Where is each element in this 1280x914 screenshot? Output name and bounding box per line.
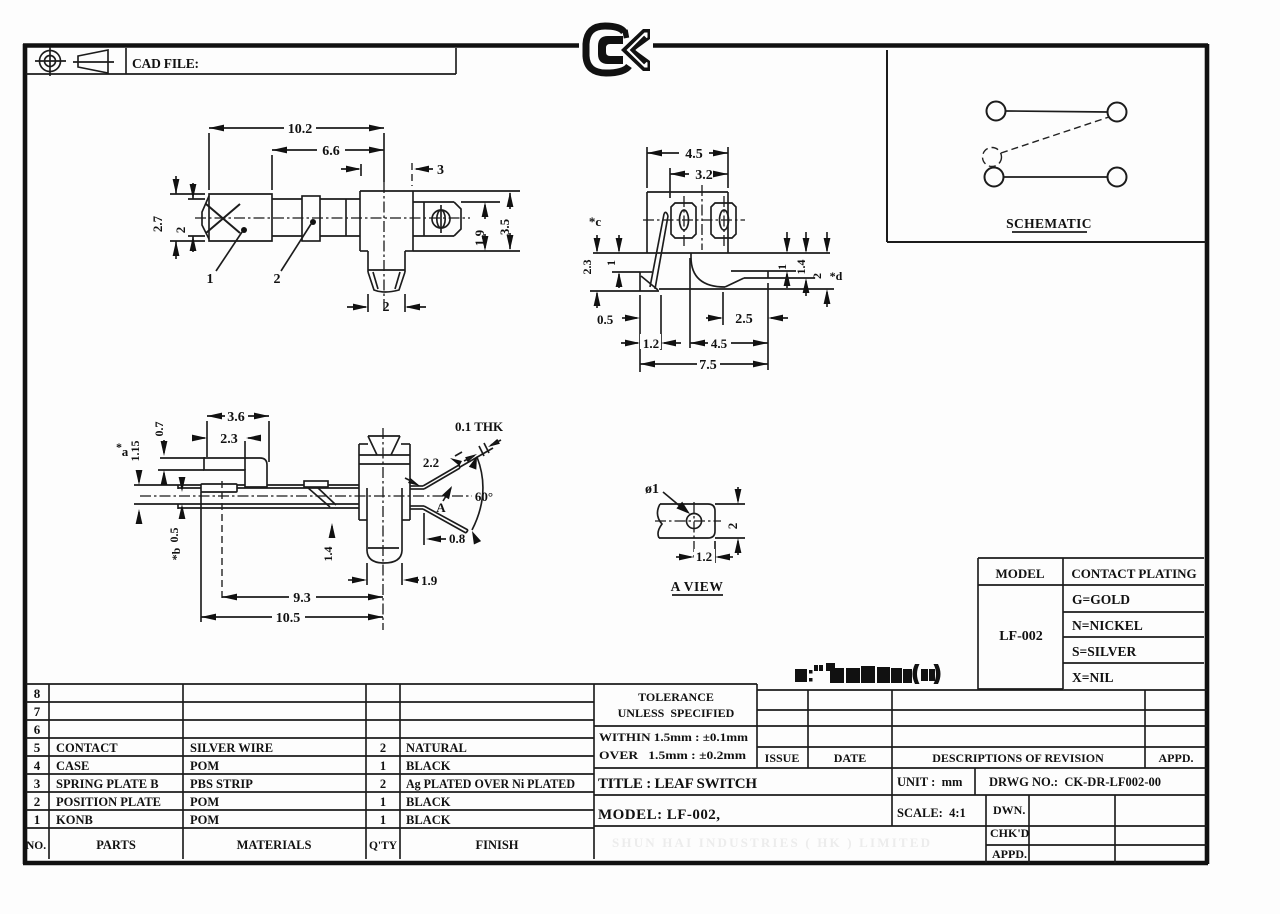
knob body (part 1): [209, 194, 272, 241]
lower fixed leaf: [410, 505, 424, 507]
svg-text:DATE: DATE: [834, 751, 866, 765]
svg-text:4.5: 4.5: [685, 147, 703, 162]
schematic terminal 2 (top-right): [1108, 103, 1127, 122]
svg-text:1: 1: [207, 272, 214, 287]
svg-text:ISSUE: ISSUE: [765, 751, 800, 765]
dim 10.2: [208, 133, 210, 190]
right terminal tab: [413, 201, 454, 203]
svg-text:2: 2: [274, 272, 281, 287]
body: [647, 191, 728, 193]
dim 2.5: [722, 292, 724, 325]
svg-text:Ag PLATED OVER Ni PLATED: Ag PLATED OVER Ni PLATED: [406, 777, 575, 791]
svg-text:WITHIN 1.5mm : ±0.1mm: WITHIN 1.5mm : ±0.1mm: [599, 732, 748, 744]
svg-text:DWN.: DWN.: [993, 803, 1025, 817]
svg-text:CONTACT PLATING: CONTACT PLATING: [1071, 566, 1196, 581]
centerline: [195, 217, 470, 219]
svg-text:ø1: ø1: [645, 482, 659, 497]
svg-text:NO.: NO.: [26, 840, 46, 852]
svg-text:CHK'D: CHK'D: [990, 826, 1030, 840]
svg-text:SCHEMATIC: SCHEMATIC: [1006, 216, 1092, 231]
svg-text:9.3: 9.3: [293, 591, 311, 606]
dim 7.5: [640, 363, 697, 365]
right slotted tab: [711, 203, 736, 238]
right strip: [731, 270, 768, 272]
svg-text:1: 1: [380, 813, 386, 827]
svg-text:2: 2: [380, 777, 386, 791]
svg-text:PARTS: PARTS: [96, 838, 136, 852]
svg-text:1.15: 1.15: [128, 441, 142, 462]
svg-text:*b: *b: [169, 547, 183, 560]
svg-text:2: 2: [173, 227, 188, 234]
dashed actuator line: [1001, 117, 1109, 153]
svg-text:TOLERANCE: TOLERANCE: [638, 690, 714, 704]
svg-text:5: 5: [34, 740, 41, 755]
tolerance box: [594, 683, 757, 685]
svg-text:1.4: 1.4: [794, 260, 808, 275]
svg-text:2: 2: [810, 273, 824, 279]
leader dot part 1: [241, 227, 247, 233]
svg-text:1.2: 1.2: [643, 336, 659, 351]
svg-text:KONB: KONB: [56, 813, 93, 827]
svg-text:1: 1: [604, 260, 618, 266]
bottom plunger: [367, 251, 369, 272]
case block: [360, 190, 413, 192]
C&K company logo: [586, 26, 650, 73]
case centerline: [383, 182, 385, 310]
svg-text:2.5: 2.5: [735, 312, 753, 327]
svg-text:APPD.: APPD.: [992, 847, 1027, 861]
schematic terminal 3 (bottom-left): [985, 168, 1004, 187]
svg-text:*d: *d: [830, 269, 843, 283]
parts list table: [26, 683, 594, 685]
tab outline: [659, 504, 715, 538]
title block: [594, 794, 1207, 796]
svg-text:OVER 1.5mm : ±0.2mm: OVER 1.5mm : ±0.2mm: [599, 750, 746, 762]
terminal bracket (top-left): [204, 458, 267, 487]
svg-text:0.5: 0.5: [167, 528, 181, 543]
svg-text:SCALE: 4:1: SCALE: 4:1: [897, 806, 966, 820]
svg-text:4.5: 4.5: [711, 336, 728, 351]
first-angle projection symbol: circle target: [40, 51, 61, 72]
svg-text:60°: 60°: [475, 489, 493, 504]
hole: [687, 514, 702, 529]
svg-text:DESCRIPTIONS OF REVISION: DESCRIPTIONS OF REVISION: [932, 751, 1104, 765]
svg-text:1.9: 1.9: [421, 573, 438, 588]
svg-text:2: 2: [380, 741, 386, 755]
svg-text:2: 2: [34, 794, 41, 809]
plate lines: [158, 469, 204, 471]
dim 4.5 bottom: [689, 258, 691, 348]
svg-text:6.6: 6.6: [322, 144, 340, 159]
dim 3.5 (right outer): [413, 190, 520, 192]
dim 0.8: [423, 513, 425, 545]
curved arm: [691, 253, 725, 287]
dim 3.6: [206, 421, 208, 457]
dim 1.4: [368, 547, 399, 549]
svg-text:MODEL: MODEL: [995, 566, 1044, 581]
svg-text:POM: POM: [190, 813, 219, 827]
svg-text:DRWG NO.: CK-DR-LF002-00: DRWG NO.: CK-DR-LF002-00: [989, 775, 1161, 789]
svg-text:7.5: 7.5: [699, 358, 717, 373]
model / contact plating table: [978, 557, 1204, 559]
60 degree arc: [472, 457, 483, 530]
svg-text:TITLE : LEAF SWITCH: TITLE : LEAF SWITCH: [598, 776, 757, 792]
svg-text:NATURAL: NATURAL: [406, 741, 467, 755]
svg-text:0.8: 0.8: [449, 531, 466, 546]
dim 2.7 (left outer): [170, 193, 205, 195]
svg-text:Q'TY: Q'TY: [369, 840, 398, 852]
svg-text:BLACK: BLACK: [406, 813, 451, 827]
dim 0.5 / *b: [181, 480, 183, 489]
dim 2.3 left: [596, 235, 598, 251]
svg-text:2: 2: [383, 300, 390, 315]
wire bottom: [1004, 176, 1107, 178]
svg-text:10.5: 10.5: [276, 611, 301, 626]
svg-text:2.2: 2.2: [423, 455, 439, 470]
svg-text:BLACK: BLACK: [406, 759, 451, 773]
svg-text:3.5: 3.5: [497, 218, 512, 235]
dim 2 (left inner): [188, 198, 205, 200]
svg-text:LF-002: LF-002: [999, 629, 1043, 644]
dim 2: [715, 503, 745, 505]
svg-text:1: 1: [380, 795, 386, 809]
main centerline: [140, 495, 472, 497]
svg-text:8: 8: [34, 686, 41, 701]
svg-text:X=NIL: X=NIL: [1072, 670, 1113, 685]
shaft right part: [320, 198, 360, 200]
svg-text:0.5: 0.5: [597, 312, 614, 327]
svg-text:7: 7: [34, 704, 41, 719]
dim 1 left: [618, 235, 620, 251]
svg-text:G=GOLD: G=GOLD: [1072, 592, 1130, 607]
svg-text:10.2: 10.2: [288, 122, 313, 137]
inner plunger: [366, 488, 368, 551]
first-angle projection symbol: truncated cone: [78, 50, 108, 73]
note: inspection-dimension remark (CJK, drawn as blobs): [795, 663, 941, 684]
dim 3.2: [669, 168, 671, 198]
wire top: [1006, 111, 1107, 112]
plunger centerline: [382, 428, 384, 630]
tab centerlines: [643, 219, 745, 221]
schematic terminal 4 (bottom-right): [1108, 168, 1127, 187]
svg-text:POSITION PLATE: POSITION PLATE: [56, 795, 161, 809]
dim 9.3: [221, 481, 223, 602]
svg-text:MODEL: LF-002,: MODEL: LF-002,: [598, 807, 720, 823]
upper moving leaf: [410, 485, 423, 487]
centerlines: [655, 520, 721, 522]
svg-text:MATERIALS: MATERIALS: [237, 838, 312, 852]
svg-text:*c: *c: [589, 214, 602, 229]
svg-text:0.7: 0.7: [152, 422, 166, 437]
svg-text:1: 1: [380, 759, 386, 773]
svg-text:BLACK: BLACK: [406, 795, 451, 809]
plunger body: [359, 443, 368, 445]
svg-text:CONTACT: CONTACT: [56, 741, 118, 755]
dim 0.7: [160, 457, 205, 459]
svg-text:2.3: 2.3: [220, 432, 238, 447]
svg-text:3.6: 3.6: [227, 410, 245, 425]
dim 3: [360, 164, 362, 176]
dim 10.5: [200, 492, 202, 622]
schematic moving contact (dashed circle): [983, 148, 1002, 167]
svg-text:3: 3: [34, 776, 41, 791]
dim 1.2: [714, 541, 716, 563]
dim 1.2: [660, 295, 662, 350]
dim 2.3: [244, 441, 246, 470]
svg-text:3: 3: [437, 163, 444, 178]
CAD FILE header box: [26, 73, 456, 75]
left foot: [640, 271, 652, 273]
svg-text:2.7: 2.7: [150, 215, 165, 232]
svg-text:1.4: 1.4: [321, 547, 335, 562]
svg-text:CAD FILE:: CAD FILE:: [132, 56, 199, 71]
left leg: [650, 214, 664, 287]
bracket foot: [201, 484, 237, 492]
svg-text:POM: POM: [190, 795, 219, 809]
svg-text:UNLESS SPECIFIED: UNLESS SPECIFIED: [618, 706, 735, 720]
svg-text:3.2: 3.2: [695, 168, 713, 183]
svg-text:CASE: CASE: [56, 759, 89, 773]
schematic terminal 1 (top-left): [987, 102, 1006, 121]
svg-text:6: 6: [34, 722, 41, 737]
svg-text:UNIT : mm: UNIT : mm: [897, 775, 963, 789]
long lower extension: [659, 288, 834, 290]
dim 2 (bottom): [367, 294, 369, 312]
base extension line: [593, 252, 830, 254]
schematic enclosure box: [886, 50, 888, 242]
svg-text:2.3: 2.3: [580, 260, 594, 275]
dim 1.9 (right inner): [461, 201, 500, 203]
position plate collar (part 2): [302, 196, 320, 241]
svg-text:FINISH: FINISH: [475, 838, 518, 852]
svg-text:POM: POM: [190, 759, 219, 773]
svg-text:SILVER WIRE: SILVER WIRE: [190, 741, 273, 755]
svg-text:PBS STRIP: PBS STRIP: [190, 777, 253, 791]
left slotted tab: [671, 203, 696, 238]
sheet border frame: [23, 43, 579, 48]
shaft: [272, 198, 302, 200]
svg-text:0.1 THK: 0.1 THK: [455, 419, 504, 434]
knurl X mark: [206, 204, 240, 233]
right dims: down arrows: [786, 232, 788, 251]
terminal hole: [432, 210, 450, 228]
svg-text:S=SILVER: S=SILVER: [1072, 644, 1136, 659]
contact rivet: [304, 481, 328, 487]
svg-text:APPD.: APPD.: [1159, 751, 1194, 765]
svg-text:SPRING PLATE B: SPRING PLATE B: [56, 777, 159, 791]
leaf tip extension: [460, 448, 493, 467]
dim 4.5 top: [646, 147, 648, 188]
svg-text:1: 1: [34, 812, 41, 827]
svg-text:N=NICKEL: N=NICKEL: [1072, 618, 1143, 633]
svg-text:1.2: 1.2: [696, 549, 712, 564]
dim 1.9 bottom: [366, 563, 368, 585]
revision strip: [757, 689, 1207, 691]
dim 6.6: [271, 155, 273, 190]
svg-text:4: 4: [34, 758, 41, 773]
svg-text:2: 2: [725, 523, 740, 530]
svg-text:1: 1: [775, 264, 789, 270]
svg-text:A VIEW: A VIEW: [671, 579, 724, 594]
